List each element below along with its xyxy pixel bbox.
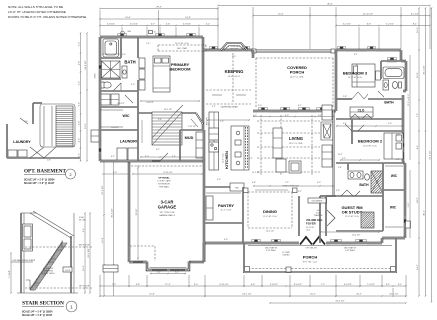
svg-text:4'-2": 4'-2" [79,138,81,143]
svg-text:8 FT. TRL. CLG.: 8 FT. TRL. CLG. [303,262,318,264]
exterior wall bottom guest wing [382,237,405,239]
svg-text:6 FT DBL DR: 6 FT DBL DR [305,248,317,250]
bath3 wall left [380,61,382,79]
svg-text:30'-2 1/2": 30'-2 1/2" [424,65,426,74]
porch post center [286,267,291,272]
svg-text:10'-0" CL. CEIL.: 10'-0" CL. CEIL. [290,77,305,79]
garage left wall [128,161,130,262]
window dining 1 [251,242,261,245]
wall bath bottom [100,90,138,92]
window dining 2 [271,242,281,245]
window living 2 [280,110,290,113]
svg-text:8'-4 1/2": 8'-4 1/2" [111,127,119,129]
svg-text:5'-7": 5'-7" [151,24,156,26]
garage bottom wall left part [129,261,147,263]
window W3 top wall [186,36,196,39]
washer dryer main laundry [117,148,127,160]
mud bench cubbies [196,132,203,158]
svg-text:DINING: DINING [263,209,277,214]
living sofa [276,159,286,172]
svg-text:4'-6": 4'-6" [166,24,171,26]
svg-text:4'-4": 4'-4" [79,121,81,126]
svg-text:7'-11 1/2": 7'-11 1/2" [188,126,197,128]
window bedroom3 1 [337,49,346,52]
dimension line third row left wing segments [100,25,218,27]
svg-text:DECORATIVE: DECORATIVE [312,200,324,203]
living builtin upper [322,105,332,120]
svg-text:36'-6": 36'-6" [327,4,333,6]
keeping fireplace bay [221,43,247,50]
ac pad right [406,221,411,228]
porch outline [244,238,396,272]
svg-text:9-1/2 WALL: 9-1/2 WALL [345,249,355,252]
tub primary bath [103,39,119,57]
garage right wall [203,130,205,262]
svg-text:6'-8": 6'-8" [367,24,372,26]
svg-text:4'-8": 4'-8" [79,61,81,66]
svg-text:1ST FLOOR: 1ST FLOOR [79,286,90,288]
fireplace living [321,122,333,140]
window keeping 2 [242,49,250,52]
stair section lower stair steps [26,280,30,290]
keeping cathedral beam dashes [206,89,251,91]
svg-text:4'-8 1/2": 4'-8 1/2" [146,102,154,104]
svg-text:13'-2": 13'-2" [85,123,87,129]
dining corner posts [244,188,249,193]
window guest 2 [355,242,367,245]
garage door opening marks [133,261,143,263]
wic shelves [100,109,123,111]
wall living right x333 [333,111,335,196]
window right wall wic [404,216,407,226]
garage optional dashed box [130,246,155,261]
svg-text:14'-4 1/2": 14'-4 1/2" [266,231,275,233]
wall hall right wing x352 upper [351,119,353,131]
hall linen closets [101,94,110,105]
bath2 shower crosshatch [371,171,383,193]
svg-text:KEEPING: KEEPING [225,69,244,74]
svg-text:8'-1 1/2": 8'-1 1/2" [411,14,419,16]
svg-text:4'-2": 4'-2" [206,24,211,26]
wall bath2 bottom [336,195,383,197]
svg-text:19'-2 1/8": 19'-2 1/8" [88,248,90,257]
shower primary bath [102,61,121,78]
wall mud left [179,130,181,161]
keeping side arrows [212,94,246,96]
exterior wall top left wing [100,36,203,38]
svg-text:4'-6": 4'-6" [251,284,256,286]
dimension line left side vertical pair [80,33,82,161]
svg-text:WIC: WIC [123,114,130,118]
svg-text:8'-1": 8'-1" [417,145,419,150]
svg-text:6'-6 1/2": 6'-6 1/2" [117,103,125,105]
svg-text:4'-6": 4'-6" [136,284,141,286]
svg-text:DOORS TO BE 8'-0" HT. UNLESS N: DOORS TO BE 8'-0" HT. UNLESS NOTED OTHER… [8,15,86,19]
wall jog keeping top [202,37,204,50]
svg-text:TRANSOM: TRANSOM [314,214,323,217]
window W1 top wall [117,36,127,39]
circle callout 2 [66,169,76,179]
svg-text:LAUNDRY: LAUNDRY [13,140,31,144]
extension lines from top dims to wall [99,10,101,36]
svg-text:12'-0" HT. CLG.: 12'-0" HT. CLG. [348,77,362,79]
svg-text:3'-2": 3'-2" [79,153,81,158]
svg-text:1'-6": 1'-6" [396,134,400,136]
svg-text:BEDROOM: BEDROOM [170,67,192,72]
bath2 vanity two sinks [348,171,363,179]
svg-text:4'-9 1/4": 4'-9 1/4" [107,24,115,26]
wall kitchen bottom / pantry top [204,186,244,188]
svg-text:2ND FLOOR: 2ND FLOOR [79,245,90,247]
svg-text:10'-0" CL. CEIL.: 10'-0" CL. CEIL. [289,143,304,145]
wall bedroom3 left / porch right [335,50,337,111]
wall primary bottom [138,112,196,114]
svg-text:OPTIONAL: OPTIONAL [158,177,170,180]
svg-text:6'-0 1/2": 6'-0 1/2" [294,284,302,286]
door primary bedroom [175,105,183,113]
svg-text:20'-2": 20'-2" [356,294,362,296]
svg-text:BATH: BATH [384,101,394,105]
wall bath tub alcove [100,57,121,59]
svg-text:12'-0" HT. CLG.: 12'-0" HT. CLG. [263,216,277,218]
svg-text:GARAGE WALLS: GARAGE WALLS [159,214,175,217]
wall guest bottom y231 [336,230,383,232]
dimension line bottom row 1 segments [100,285,406,287]
svg-text:DOOR: DOOR [65,270,71,272]
wall bedroom2 top y131 [352,130,403,132]
svg-text:2'-8": 2'-8" [343,96,347,98]
kitchen fridge [209,128,219,140]
exterior pad left wall [91,130,99,142]
svg-text:5'-1": 5'-1" [398,284,403,286]
svg-text:6'-3 1/4": 6'-3 1/4" [130,24,138,26]
wall wic top [100,106,138,108]
svg-text:12'-4 1/2": 12'-4 1/2" [352,235,361,237]
porch inner dashed line [248,268,392,270]
svg-text:FOYER: FOYER [306,222,316,226]
svg-text:14'-10 1/2": 14'-10 1/2" [363,14,374,16]
pantry shelves [206,192,241,194]
foyer right wall [325,196,327,236]
svg-text:NOTE: ALL WALLS THIS LEVEL TO: NOTE: ALL WALLS THIS LEVEL TO BE [8,5,63,9]
door bedroom2 [345,124,364,131]
svg-text:5'-0": 5'-0" [388,123,392,125]
svg-text:2'-1": 2'-1" [206,124,210,126]
living chair [289,161,301,173]
svg-text:STAIR SECTION: STAIR SECTION [22,301,64,307]
svg-text:2'-4": 2'-4" [338,167,342,169]
dimension line right side verticals [418,8,420,296]
bath3 toilet [392,82,397,89]
svg-text:CLO: CLO [358,108,365,112]
stair section window [23,224,33,251]
svg-text:3'-2": 3'-2" [342,158,346,160]
svg-text:7'-2": 7'-2" [112,284,117,286]
svg-text:9'-10 1/2": 9'-10 1/2" [219,284,228,286]
wall hall y119 [336,118,403,120]
svg-text:CLG.: CLG. [306,229,311,231]
wall living top porch bottom [253,110,336,112]
svg-text:9'-10 1/2": 9'-10 1/2" [163,172,172,174]
svg-text:CEILING: CEILING [282,255,290,257]
garage interior dim vertical [137,165,139,260]
svg-text:WIC: WIC [390,206,397,210]
opt basement door swings [30,147,56,158]
wall left wing to keeping vertical [202,50,204,130]
door bath3 arc [378,91,384,97]
bifold clo marks [350,114,372,119]
wall pantry-dining left vertical [203,243,205,262]
window W2 top wall [155,36,165,39]
svg-text:10'-2 1/2": 10'-2 1/2" [389,294,398,296]
svg-text:9-1/2 WALL: 9-1/2 WALL [266,249,276,252]
svg-text:6'-0": 6'-0" [232,56,236,58]
svg-text:OR STUDY: OR STUDY [342,210,363,215]
opt basement stair outline [40,104,75,147]
svg-text:7'-2": 7'-2" [321,284,326,286]
svg-text:13'-0" x 13'-6": 13'-0" x 13'-6" [228,76,241,78]
svg-text:PORCH: PORCH [290,70,305,75]
svg-text:5'-1": 5'-1" [298,191,302,193]
svg-text:GARAGE: GARAGE [158,205,177,210]
svg-text:4'-8": 4'-8" [252,182,256,184]
dimension line top row right 36'-6 [218,5,430,7]
kitchen range [209,142,219,152]
svg-text:7'-2": 7'-2" [417,113,419,118]
door primary diagonal arc [191,119,198,127]
opt basement stair treads [56,106,73,146]
circle callout 1 [66,301,77,312]
dimension line left-of-garage verticals [103,161,105,296]
opt basement washer boxes [8,150,17,157]
svg-text:36'-3 1/2": 36'-3 1/2" [112,208,114,217]
wall wic bottom / laundry top [100,129,138,131]
svg-text:GL: GL [154,32,156,34]
nightstand bedroom3 [376,71,381,80]
svg-text:3'-6": 3'-6" [158,119,162,121]
stair section roof diagonal [33,211,74,236]
bed primary [153,56,170,92]
svg-text:14'-9": 14'-9" [185,17,191,19]
svg-text:5'-2": 5'-2" [79,81,81,86]
svg-text:5'-0": 5'-0" [122,54,126,56]
svg-text:70'-3 1/2": 70'-3 1/2" [430,150,432,159]
wall bedroom3 bottom with bifold doors [336,98,352,100]
svg-text:12'-0" HT. CLG.: 12'-0" HT. CLG. [363,146,377,148]
svg-text:7'-4 1/8": 7'-4 1/8" [9,270,11,278]
svg-text:6'-0 1/2": 6'-0 1/2" [344,284,352,286]
svg-text:24'-1 1/2": 24'-1 1/2" [242,294,251,296]
stair section right wall [70,236,72,293]
wall guest left x320 [319,196,321,243]
stair section door [63,267,72,272]
primary dresser wall units [139,58,145,68]
bifold door marks bedroom3 [352,92,368,99]
front door entry double doors [299,242,326,245]
svg-text:5'-2": 5'-2" [79,42,81,47]
svg-text:4'-0": 4'-0" [194,284,199,286]
toilet room primary [103,82,111,88]
svg-text:11'-0": 11'-0" [408,202,410,207]
wic shelves upper [385,165,403,167]
svg-text:MUD: MUD [185,136,194,140]
wall bath2 left [347,163,349,170]
wall pantry bottom [204,222,243,224]
svg-text:6'-0": 6'-0" [175,271,179,273]
garage bay protrusion [147,262,189,271]
svg-text:OPT. BASEMENT: OPT. BASEMENT [24,169,67,175]
svg-text:9'-0": 9'-0" [217,179,221,181]
wall guest top with door marks [320,195,336,197]
svg-text:6'-0": 6'-0" [157,271,161,273]
dimension line bottom row 2 subtotals [100,295,406,297]
svg-text:21'-8": 21'-8" [149,294,155,296]
svg-text:14'-2": 14'-2" [417,264,419,270]
extension lines bottom [128,275,130,287]
svg-text:BATH: BATH [124,60,135,65]
living console left [273,128,282,158]
svg-text:4' GOLF CART: 4' GOLF CART [157,180,171,183]
porch ceiling dashed [256,57,333,59]
dimension line top row left wing 29'-3 [100,8,218,10]
garage interior dim horizontal [132,173,203,175]
svg-text:41'-3 1/2": 41'-3 1/2" [335,301,344,303]
bath3 sink vanity [383,80,389,90]
svg-text:23'-10": 23'-10" [136,208,138,215]
svg-text:SCALE 1/4" = 1'-0" @ 18X24: SCALE 1/4" = 1'-0" @ 18X24 [22,311,53,314]
svg-text:12'-0" HT. CLG.: 12'-0" HT. CLG. [345,216,359,218]
bath3 tub [383,67,404,79]
foyer decorative beam box [308,198,326,203]
pantry microwave counter [230,183,244,191]
interior small dim tick rows [336,125,403,127]
svg-text:PORCH: PORCH [303,255,318,260]
hose bib symbol top wall [121,31,125,35]
stoop at garage bottom-left [103,265,118,272]
svg-text:6'-1": 6'-1" [298,105,302,107]
porch post left corner [245,267,250,272]
svg-text:PANTRY: PANTRY [218,203,234,208]
window left wall laundry [99,146,102,154]
svg-text:SCALE 1/8" = 1'-0" @ 11X17: SCALE 1/8" = 1'-0" @ 11X17 [24,182,55,185]
svg-text:11'-2": 11'-2" [417,27,419,33]
porch post top-right [331,49,335,53]
guest closet hatch [361,212,374,228]
wall bedroom2 left [351,131,353,144]
svg-text:11'-1 1/2": 11'-1 1/2" [252,172,261,174]
svg-text:18'-5": 18'-5" [417,197,419,203]
svg-text:5'-8 1/2": 5'-8 1/2" [270,284,278,286]
svg-text:LOW WALL UNDER STAIRS: LOW WALL UNDER STAIRS [12,259,36,262]
svg-text:7'-2": 7'-2" [285,182,289,184]
window right wall bedroom2 [402,138,405,152]
window keeping 1 [209,49,218,52]
svg-text:14'-6": 14'-6" [125,17,131,19]
window bedroom3 2 [367,49,376,52]
exterior wall right bedroom2 [402,95,404,163]
svg-text:2'-8": 2'-8" [47,160,51,162]
dining tray ceiling dash [248,192,292,228]
opt basement inset walls [6,124,8,158]
primary ceiling note dashed [158,45,206,51]
svg-text:11'-4": 11'-4" [338,154,343,156]
bath vanity [122,66,127,78]
svg-text:7'-2": 7'-2" [220,121,224,123]
stair hatch main plan [152,112,182,145]
svg-text:17'-2": 17'-2" [165,284,171,286]
window above tub [387,60,397,63]
svg-text:12'-2 1/2": 12'-2 1/2" [102,185,104,194]
dimension line second row left wing [100,18,218,20]
door living center [298,110,310,113]
door toilet room [113,83,121,91]
wall bath right [137,37,139,58]
garage bottom wall right part [189,261,204,263]
stair section top and bottom [21,212,36,214]
window living 3 [316,110,328,113]
keeping center dashed line [232,53,234,103]
wall wic right column x383 [382,163,384,231]
svg-text:1'-6": 1'-6" [146,43,150,45]
svg-text:16'-2": 16'-2" [310,294,316,296]
svg-text:10'-0" CLG.: 10'-0" CLG. [223,152,225,163]
mid wall laundry-garage bottom [100,160,204,162]
dimension line second row right [253,15,430,17]
svg-text:5'-0": 5'-0" [317,182,321,184]
svg-text:SCALE 1/8" = 1'-0" @ 11X17: SCALE 1/8" = 1'-0" @ 11X17 [22,314,53,317]
svg-text:4'-9 1/4": 4'-9 1/4" [183,24,191,26]
svg-text:5'-2 1/2": 5'-2 1/2" [343,24,351,26]
exterior wall bedroom3 top [336,49,401,51]
porch post right corner [391,267,396,272]
wall mud top [180,129,204,131]
window living 1 [258,110,268,113]
svg-text:CATHEDRAL BEAM: CATHEDRAL BEAM [220,106,238,109]
wall keeping right / porch left [252,50,254,58]
svg-text:4'-0": 4'-0" [224,239,228,241]
svg-text:10'-1 1/2": 10'-1 1/2" [164,109,173,111]
svg-text:40'-1": 40'-1" [424,210,426,216]
wall guest wing top y163 [336,162,403,164]
svg-text:10'-0" HT. CLG.: 10'-0" HT. CLG. [175,43,189,45]
svg-text:THIS WALL: THIS WALL [159,186,170,189]
wall wic divider y190 [383,189,405,191]
door garage to mud [152,153,168,161]
porch post top-left [252,49,256,53]
svg-text:OPTIONAL: OPTIONAL [229,47,238,50]
light fixture top wall [149,31,153,34]
stair section stair diagonal with hatch [30,243,62,290]
stair section 2nd floor dashed [25,246,92,248]
bed bedroom2 [384,133,403,159]
svg-text:14'-6 1/2": 14'-6 1/2" [85,60,87,69]
bath2 toilet [365,174,370,180]
wall foyer to guest stub [326,195,336,197]
svg-text:5'-2 1/2": 5'-2 1/2" [386,24,394,26]
svg-text:11'-4": 11'-4" [102,237,104,243]
svg-text:LIVING: LIVING [289,136,303,141]
svg-text:5'-0": 5'-0" [113,172,118,174]
svg-text:8'-1": 8'-1" [413,24,418,26]
stair section right dims [84,213,86,293]
kitchen counters left [209,112,219,170]
svg-text:3'-1": 3'-1" [212,106,216,108]
wall primary corner diagonal [196,113,203,124]
svg-text:7'-4 1/2": 7'-4 1/2" [367,284,375,286]
bath3 wall top [381,60,401,62]
interior dim lines misc [140,100,200,102]
svg-text:12'-6": 12'-6" [417,72,419,78]
